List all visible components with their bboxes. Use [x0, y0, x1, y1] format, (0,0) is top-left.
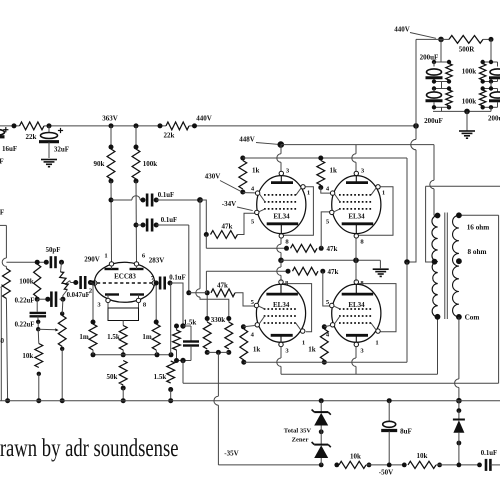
wire V4 anode drop (hops screen bus): [277, 346, 281, 374]
wire 440V feed down to screen node (hops 448V line): [410, 126, 417, 262]
resistor R25 100k (right lower): [480, 82, 498, 108]
svg-text:0.1uF: 0.1uF: [169, 274, 185, 281]
svg-text:0.047uF: 0.047uF: [67, 292, 90, 299]
label 440V (rail): [196, 114, 212, 122]
resistor R22 100k (upper bleeder): [432, 64, 476, 84]
wire upper grid line: [206, 235, 289, 251]
svg-text:90k: 90k: [94, 160, 105, 168]
svg-text:50pF: 50pF: [46, 247, 61, 254]
wire V2 cathode drop (hops grid line): [277, 238, 281, 260]
capacitor C15 8uF: [381, 398, 412, 467]
wire V3 cathode drop: [355, 238, 357, 260]
svg-text:440V: 440V: [196, 114, 212, 122]
svg-text:uF: uF: [0, 209, 4, 217]
wire C4 down to lower grid line: [186, 225, 191, 295]
svg-text:1.5k: 1.5k: [154, 373, 167, 381]
resistor R23 100k (lower bleeder): [446, 90, 476, 107]
svg-text:8 ohm: 8 ohm: [468, 248, 487, 256]
svg-text:10k: 10k: [22, 352, 33, 360]
wire lower anode line to OPT: [281, 317, 438, 374]
wire anode V1a to coupling node: [109, 181, 114, 262]
resistor R20 1k (screen V5): [308, 324, 331, 364]
svg-text:100k: 100k: [143, 160, 158, 168]
caption drawn by adr soundsense: [0, 433, 179, 462]
wire left edge to ground rail: [0, 288, 2, 401]
label remnant F: [0, 158, 4, 166]
svg-text:1: 1: [375, 340, 378, 347]
svg-text:Zener: Zener: [292, 436, 309, 443]
svg-text:Total 35V: Total 35V: [284, 427, 312, 434]
tube V5 EL34 (lower right): [330, 280, 381, 347]
svg-text:47k: 47k: [222, 222, 233, 230]
svg-text:50: 50: [0, 337, 5, 345]
svg-text:100k: 100k: [462, 68, 477, 76]
wire V4 cathode rise (hops lower grid line): [277, 260, 281, 281]
resistor R3 90k: [94, 126, 115, 184]
svg-text:363V: 363V: [102, 114, 118, 122]
svg-text:430V: 430V: [205, 173, 221, 181]
resistor R8 1m (grid leak V1b): [142, 283, 160, 355]
label Com: [465, 313, 480, 321]
svg-text:-50V: -50V: [379, 468, 393, 476]
wire V2 pin1 to pin8: [284, 187, 314, 236]
wire 440V supply node: [416, 37, 449, 126]
svg-text:1k: 1k: [252, 167, 260, 175]
svg-text:290V: 290V: [84, 256, 100, 264]
wire tail junction line: [91, 352, 174, 357]
wire anode line 448V (upper pair): [278, 141, 438, 215]
svg-text:200uF: 200uF: [420, 54, 439, 62]
svg-text:100k: 100k: [462, 98, 477, 106]
pin labels V2: [251, 167, 310, 245]
tube V1 ECC83 phase splitter: [93, 262, 157, 303]
potentiometer VR2 (treble, diagonal): [60, 262, 71, 302]
resistor R12 330k (bias feed lower): [203, 293, 211, 355]
svg-text:uF: uF: [0, 158, 4, 166]
resistor R1 22k (input rail): [20, 122, 45, 141]
resistor R24 100k (right upper): [480, 39, 498, 81]
resistor R16 47k (grid V5): [293, 267, 339, 306]
label 440V with leader (supply): [394, 25, 436, 38]
resistor R4 100k: [132, 126, 157, 184]
wire V4 pin8 to pin1: [283, 284, 311, 332]
svg-text:-34V: -34V: [222, 200, 236, 208]
wire secondary common down to ground rail (hops feedback line): [455, 317, 462, 404]
svg-text:1k: 1k: [253, 345, 261, 353]
pin labels V1: [89, 253, 155, 309]
resistor R28 10k (bias): [334, 452, 404, 468]
pin labels V3: [326, 167, 385, 245]
capacitor C6 (NFB bypass): [183, 326, 199, 361]
svg-text:1k: 1k: [308, 345, 316, 353]
label remnant (input cap): [0, 209, 4, 217]
wire treble node line: [6, 260, 64, 265]
svg-text:EL34: EL34: [273, 213, 290, 221]
svg-text:10k: 10k: [417, 452, 428, 460]
svg-text:0.22uF: 0.22uF: [15, 322, 35, 329]
svg-text:200uF: 200uF: [424, 117, 443, 125]
resistor R6 56k: [107, 361, 128, 404]
svg-text:16 ohm: 16 ohm: [467, 224, 490, 232]
svg-text:1m: 1m: [79, 333, 89, 341]
resistor R26 100k (tone): [19, 264, 41, 302]
label 448V with leader: [239, 135, 277, 144]
potentiometer VR1 (volume): [1, 269, 11, 404]
wire V5 cathode rise: [355, 260, 357, 281]
pin labels V4: [251, 280, 305, 355]
ground (below C2): [41, 160, 57, 167]
resistor R17 1k (screen V2): [239, 161, 260, 195]
svg-text:1: 1: [307, 190, 310, 197]
resistor R18 1k (screen V3): [317, 161, 337, 194]
svg-text:500R: 500R: [459, 45, 476, 53]
wire bass wiper line: [36, 322, 59, 332]
capacitor C9 200uF (right upper, clipped): [481, 62, 500, 84]
svg-text:drawn by adr soundsense: drawn by adr soundsense: [0, 433, 179, 462]
svg-text:283V: 283V: [149, 257, 165, 265]
svg-text:0.1uF: 0.1uF: [158, 192, 174, 199]
transformer T1 core: [445, 213, 448, 320]
resistor R29 10k (bias 2): [402, 452, 480, 469]
label 16 ohm: [467, 224, 490, 232]
label 200uF (upper): [420, 54, 439, 62]
ground (PSU): [459, 131, 475, 138]
svg-text:16uF: 16uF: [2, 145, 17, 153]
svg-text:1: 1: [382, 190, 385, 197]
capacitor C14 0.22uF (vertical): [15, 299, 46, 328]
svg-text:1: 1: [302, 340, 305, 347]
svg-text:1.5k: 1.5k: [107, 333, 120, 341]
resistor R15 47k (grid V4): [205, 281, 255, 306]
wire lower grid line: [189, 269, 291, 293]
capacitor C1 16uF (clipped at left edge): [0, 127, 17, 153]
ground (cathode bus): [373, 269, 389, 276]
label 290V: [84, 256, 100, 264]
label 200uF (lower): [424, 117, 443, 125]
svg-text:Com: Com: [465, 313, 480, 321]
zener D1 (bias): [312, 398, 331, 444]
capacitor C10 200uF (right lower, clipped): [481, 89, 500, 112]
potentiometer VR3 (bass): [58, 299, 66, 403]
tube V3 EL34 (upper right): [330, 171, 381, 238]
svg-text:22k: 22k: [26, 133, 37, 141]
resistor R9 1.5k (NFB divider): [173, 318, 197, 360]
transformer T1 primary winding: [432, 213, 441, 320]
wire input from left edge: [0, 225, 6, 268]
svg-text:EL34: EL34: [348, 301, 365, 309]
capacitor C8 200uF (lower): [426, 82, 452, 110]
resistor R14 47k (grid V3): [291, 212, 338, 253]
capacitor C2 32uF: [39, 126, 69, 158]
svg-text:22k: 22k: [164, 132, 175, 140]
capacitor C4 0.1uF (lower pair drive): [136, 217, 189, 231]
svg-text:8uF: 8uF: [400, 427, 412, 435]
wire C3 to upper grid resistors: [200, 200, 206, 235]
svg-text:200uF: 200uF: [488, 114, 500, 122]
wire pin7 cap to divider: [170, 283, 186, 355]
svg-text:47k: 47k: [327, 245, 338, 253]
capacitor C11 50pF: [46, 247, 61, 268]
wire V5 anode drop (hops screen bus): [352, 346, 356, 374]
svg-text:10k: 10k: [350, 452, 361, 460]
svg-text:EL34: EL34: [348, 213, 365, 221]
resistor R10 1.5k (to ground): [154, 361, 175, 403]
svg-text:0.1uF: 0.1uF: [481, 450, 497, 457]
wire 330k bottoms to bias rail (hops ground rail): [207, 350, 229, 465]
resistor R11 330k (bias feed upper): [225, 316, 233, 355]
svg-text:1k: 1k: [330, 167, 338, 175]
wire ground rail: [0, 400, 500, 402]
svg-text:100k: 100k: [19, 278, 34, 286]
label Total 35V Zener: [284, 427, 312, 443]
diode D3 (bias clamp): [453, 401, 465, 468]
label remnant 0: [0, 337, 5, 345]
wire V3 pin1 to pin8: [359, 187, 394, 236]
svg-text:330k: 330k: [211, 316, 226, 324]
svg-text:440V: 440V: [394, 25, 410, 33]
wire V2 anode drop (hops screen line): [277, 145, 281, 171]
capacitor C7 200uF (upper): [426, 39, 452, 81]
capacitor C16 0.1uF (bias out): [477, 450, 500, 471]
svg-text:ECC83: ECC83: [114, 273, 136, 281]
svg-text:0.22uF: 0.22uF: [15, 298, 35, 305]
label 363V: [102, 114, 118, 122]
wire main B+ rail 363V/440V: [0, 123, 419, 129]
label 8 ohm: [468, 248, 487, 256]
label 200uF (right, clipped): [488, 114, 500, 122]
svg-text:32uF: 32uF: [54, 146, 69, 154]
label 283V: [149, 257, 165, 265]
wire bias -35V line: [218, 463, 323, 468]
tube V4 EL34 (lower left): [254, 280, 305, 347]
wire cathode box V1: [108, 303, 139, 326]
label -34V with leader: [222, 200, 253, 211]
svg-text:47k: 47k: [217, 281, 228, 289]
svg-text:1.5k: 1.5k: [184, 318, 197, 326]
svg-text:0.1uF: 0.1uF: [161, 217, 177, 224]
resistor R2 22k (rail dropper): [164, 122, 189, 140]
wire C3 branch to bias resistor (hops lower grid line): [196, 200, 229, 319]
wire screen supply line 430V: [240, 156, 410, 265]
capacitor C3 0.1uF (upper pair drive): [111, 192, 203, 206]
transformer T1 secondary winding: [453, 212, 462, 319]
label 330k: [211, 316, 226, 324]
capacitor C12 0.047uF: [67, 276, 93, 299]
svg-text:448V: 448V: [239, 135, 255, 143]
wire lower screen bus: [244, 262, 407, 362]
svg-text:50k: 50k: [107, 373, 118, 381]
label 430V with leader: [205, 173, 241, 192]
resistor R7 1m (grid leak V1a): [79, 281, 97, 355]
resistor R5 1.5k (tail): [107, 326, 127, 358]
resistor R21 500R: [449, 36, 494, 54]
svg-text:1: 1: [104, 253, 107, 260]
label -35V: [224, 450, 238, 458]
wire anode V1b to coupling node: [134, 181, 139, 262]
resistor R13 47k (grid V2): [204, 213, 255, 238]
zener D2 (bias): [312, 442, 331, 465]
resistor R19 1k (screen V4): [240, 324, 261, 364]
wire OPT centre tap line: [426, 186, 500, 262]
wire feedback line from 16 ohm tap: [183, 215, 499, 383]
svg-text:EL34: EL34: [273, 301, 290, 309]
wire V5 pin8 to pin1: [359, 284, 397, 332]
wire NFB divider bottom to feedback line: [174, 358, 191, 383]
label -50V: [379, 468, 393, 476]
svg-text:-35V: -35V: [224, 450, 238, 458]
svg-text:1m: 1m: [142, 333, 152, 341]
wire PSU mid bus to ground: [433, 107, 491, 130]
wire cathode ground bus: [278, 258, 380, 269]
svg-text:47k: 47k: [328, 268, 339, 276]
capacitor C5 0.1uF (from pin 7): [154, 274, 186, 289]
pin labels V5: [326, 280, 379, 355]
capacitor C13 0.22uF (horizontal): [15, 291, 63, 307]
tube V2 EL34 (upper left): [255, 171, 306, 238]
wire V3 anode drop (hops screen line): [352, 145, 356, 171]
resistor R27 10k: [22, 329, 42, 403]
